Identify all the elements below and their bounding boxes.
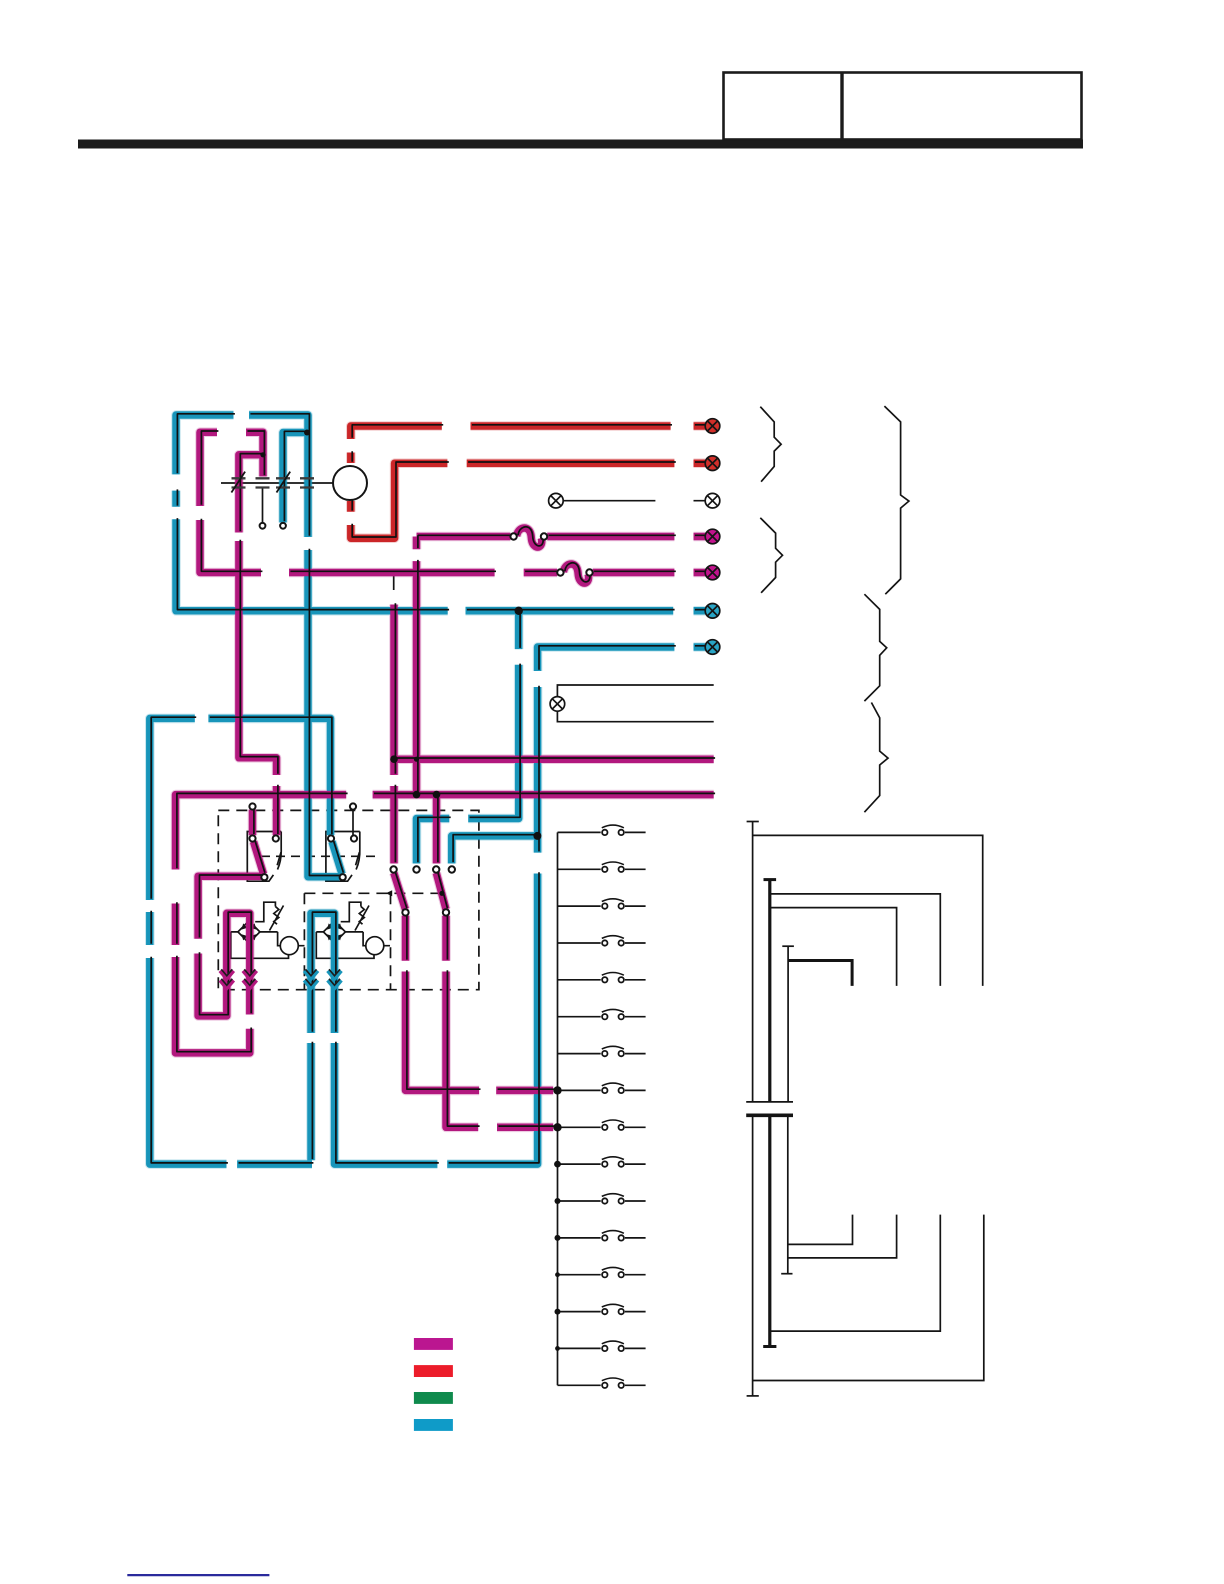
lock switch circle1 bbox=[390, 866, 396, 872]
brace 3 bbox=[884, 406, 909, 594]
ground bracket V2 bottom thick bbox=[768, 1115, 771, 1346]
ground bracket H4 top thick bbox=[788, 961, 852, 986]
brace 2 bbox=[760, 518, 782, 593]
switch row 13 bbox=[558, 1267, 646, 1277]
lamp row7 teal bbox=[705, 640, 720, 655]
ground bracket H3 top bbox=[770, 908, 897, 986]
relay1 outline bbox=[247, 832, 281, 882]
motor1 diamond cluster bbox=[238, 921, 260, 943]
stub tick below row5 bbox=[393, 575, 395, 591]
lamp row6 teal bbox=[705, 604, 720, 619]
ignition contact pair 3 bbox=[276, 478, 290, 487]
switch row 8 bbox=[558, 1083, 646, 1093]
ground bracket V1 bottom bbox=[752, 1115, 754, 1396]
node teal n top bbox=[304, 430, 310, 436]
dashed outer switch box bbox=[218, 810, 479, 989]
node magenta n corner bbox=[260, 452, 265, 457]
battery bar thin bbox=[746, 1101, 793, 1103]
terminal circles bbox=[249, 523, 592, 916]
header table box bbox=[724, 73, 1082, 140]
fuse row4 right terminal bbox=[541, 533, 547, 539]
relay2 contact terminal bbox=[340, 874, 346, 880]
motor2 resistor zigzag bbox=[355, 906, 369, 931]
lock switch lower circle1 bbox=[402, 909, 408, 915]
ground bracket top-left cap bbox=[747, 821, 759, 823]
node bank row12 bbox=[555, 1235, 561, 1241]
node bank row14 bbox=[555, 1309, 561, 1315]
legend red bbox=[414, 1365, 453, 1377]
switch row 12 bbox=[558, 1231, 646, 1241]
node bank row15 bbox=[555, 1346, 560, 1351]
ignition contact drop with terminal bbox=[262, 488, 264, 523]
relay2 outline bbox=[326, 832, 360, 882]
legend green bbox=[414, 1392, 453, 1404]
ground bracket V2 bottom cap thick bbox=[763, 1345, 776, 1348]
node teal stub x537 bbox=[533, 832, 541, 840]
motor2 circle bbox=[366, 937, 384, 955]
fuse row5 left terminal bbox=[557, 569, 563, 575]
relay2 left terminal bbox=[328, 835, 334, 841]
motor2 diamond arrowheads bbox=[327, 923, 342, 940]
ground bracket H1 bottom bbox=[753, 1215, 984, 1381]
motor1 circle bbox=[280, 937, 298, 955]
ground bracket H4 bottom bbox=[788, 1215, 853, 1245]
lamp row2 red bbox=[705, 456, 720, 471]
switch row 1 bbox=[558, 825, 646, 835]
ground bracket V3 bottom cap bbox=[781, 1273, 792, 1275]
relay1 right terminal bbox=[273, 835, 279, 841]
ground bracket V3 cap bbox=[782, 945, 794, 947]
fuse row5 right terminal bbox=[586, 569, 592, 575]
node bank row10 bbox=[554, 1161, 561, 1168]
mech link arrow bbox=[386, 890, 392, 896]
switch row 5 bbox=[558, 973, 646, 983]
switch row 10 bbox=[558, 1157, 646, 1167]
lamp row3 wire bbox=[563, 500, 705, 502]
switch row 4 bbox=[558, 936, 646, 946]
ignition contact pair 4 bbox=[300, 478, 314, 487]
flow arrows motor2 bbox=[305, 971, 342, 988]
node bus2 x417 bbox=[413, 791, 421, 799]
node teal bus row6 bbox=[515, 607, 523, 615]
motor2 diamond cluster bbox=[323, 921, 345, 943]
node bank row11 bbox=[555, 1198, 561, 1204]
relay2 right terminal bbox=[351, 835, 357, 841]
lamp row3 left white bbox=[549, 493, 564, 508]
relay1 contact terminal bbox=[261, 874, 267, 880]
lock switch lower circle2 bbox=[443, 909, 449, 915]
ground bracket V2 cap thick bbox=[764, 878, 777, 881]
switch row 3 bbox=[558, 899, 646, 909]
switch row 11 bbox=[558, 1194, 646, 1204]
lamp connector frame white bbox=[550, 697, 565, 712]
motor1 resistor zigzag bbox=[270, 906, 284, 931]
relay1 blade bbox=[277, 852, 281, 865]
node mech link dot bbox=[439, 891, 444, 896]
connector frame rectangle row3b bbox=[557, 685, 713, 722]
legend teal bbox=[414, 1419, 453, 1431]
ground bracket V1 top bbox=[752, 822, 754, 1102]
ignition contact pair 2 bbox=[256, 478, 270, 487]
junction dots bbox=[260, 430, 561, 1351]
switch row 16 bbox=[558, 1378, 646, 1388]
switch row 14 bbox=[558, 1304, 646, 1314]
node bank row13 bbox=[555, 1272, 560, 1277]
node bus1 x417 bbox=[414, 757, 419, 762]
dashed inner motor box bbox=[304, 893, 442, 989]
relay1 top terminal bbox=[249, 803, 255, 809]
terminal below ignition pair3 bbox=[280, 523, 286, 529]
switch row 6 bbox=[558, 1009, 646, 1019]
power window switch bank vertical bbox=[557, 832, 559, 1385]
switch row 2 bbox=[558, 862, 646, 872]
motor1 diamond arrowheads bbox=[241, 923, 256, 940]
battery bar thick bbox=[746, 1114, 793, 1118]
dashed mechanical link relays bbox=[261, 855, 378, 857]
switch bank rows bbox=[558, 825, 646, 1388]
lamp row4 magenta bbox=[705, 529, 720, 544]
lamp row3 white bbox=[705, 493, 720, 508]
node bus2 x436 bbox=[433, 791, 441, 799]
lock switch circle2 bbox=[413, 866, 419, 872]
brace 5 bbox=[864, 703, 888, 813]
ground bracket V3 top bbox=[787, 946, 789, 1102]
switch row 9 bbox=[558, 1120, 646, 1130]
motor1 block outline bbox=[231, 902, 305, 958]
ignition switch line bbox=[221, 482, 333, 484]
ground bracket V3 bottom bbox=[787, 1115, 789, 1273]
relay2 top terminal bbox=[350, 803, 356, 809]
lock switch circle4 bbox=[449, 866, 455, 872]
terminal below ignition pair2 bbox=[260, 523, 266, 529]
ground bracket H1 top bbox=[753, 835, 983, 986]
switch row 7 bbox=[558, 1046, 646, 1056]
ground bracket H3 bottom bbox=[788, 1215, 897, 1258]
header thick rule bbox=[78, 140, 1083, 149]
flow arrows motor1 bbox=[220, 971, 256, 988]
ignition slash 1 bbox=[231, 472, 245, 493]
ground bracket H2 top bbox=[770, 894, 941, 986]
relay2 top circle link bbox=[352, 810, 354, 836]
legend magenta bbox=[414, 1338, 453, 1350]
ignition slash 3 bbox=[277, 472, 291, 493]
node bus1 corner bbox=[390, 755, 398, 763]
ground bracket V2 top thick bbox=[768, 880, 771, 1102]
node bank row8 bbox=[553, 1086, 561, 1094]
relay1 left terminal bbox=[249, 835, 255, 841]
brace 1 bbox=[760, 407, 781, 482]
ground bracket H2 bottom bbox=[770, 1215, 941, 1332]
lock switch circle3 bbox=[433, 866, 439, 872]
lamp row5 magenta bbox=[705, 565, 720, 580]
switch row 15 bbox=[558, 1341, 646, 1351]
lamp row1 red bbox=[705, 419, 720, 434]
motor2 block outline bbox=[316, 902, 390, 958]
ground bracket V1 bottom cap bbox=[747, 1395, 759, 1397]
relay2 blade bbox=[356, 852, 360, 865]
ignition switch rotor circle bbox=[333, 466, 367, 500]
brace 4 bbox=[864, 594, 886, 701]
fuse row4 left terminal bbox=[510, 533, 516, 539]
node bank row9 bbox=[553, 1123, 561, 1131]
ignition contact pair 1 bbox=[232, 478, 246, 487]
footer link underline bbox=[127, 1574, 269, 1576]
